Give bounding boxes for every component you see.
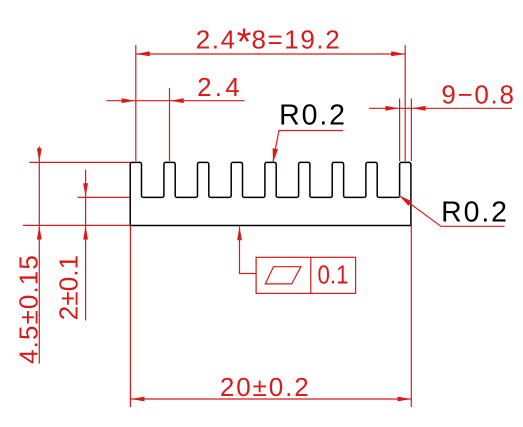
svg-text:4.5±0.15: 4.5±0.15 bbox=[14, 254, 44, 364]
leader line for top R0.2 bbox=[273, 131, 343, 162]
feature control frame divider bbox=[310, 257, 312, 293]
arrow bottom R0.2 leader bbox=[399, 195, 412, 206]
arrow 9-0.8 left (outside, pointing right) bbox=[385, 106, 399, 111]
arrow 19.2 right bbox=[391, 51, 405, 56]
arrow 20 right bbox=[398, 397, 412, 402]
slot-floor level extension line (left) bbox=[78, 196, 131, 198]
svg-text:0.1: 0.1 bbox=[318, 260, 349, 290]
leader line for bottom R0.2 bbox=[399, 195, 505, 226]
dim 9-0.8 dimension line bbox=[369, 107, 512, 109]
arrow 4.5 top (pointing down at fin-top line) bbox=[37, 148, 42, 162]
arrow 2.4 left (outside, pointing right) bbox=[122, 98, 136, 103]
arrow 4.5 bottom (pointing up at base-bottom line) bbox=[37, 226, 42, 240]
arrow 2.4 right (outside, pointing left) bbox=[170, 98, 184, 103]
arrow 9-0.8 right (outside, pointing left) bbox=[412, 106, 426, 111]
dim 2.4*8=19.2 extension line right (fin9 center) bbox=[404, 45, 406, 161]
dim 2.4*8=19.2 dimension line bbox=[136, 53, 405, 55]
dim 2.4 extension line (fin2 center) bbox=[169, 88, 171, 161]
arrow 19.2 left bbox=[136, 51, 150, 56]
svg-text:2.4: 2.4 bbox=[197, 72, 243, 102]
flatness leader line bbox=[240, 227, 257, 274]
svg-text:R0.2: R0.2 bbox=[441, 197, 509, 229]
feature control frame box bbox=[256, 257, 356, 293]
dim 4.5±0.15 dimension line bbox=[38, 147, 40, 364]
svg-text:2±0.1: 2±0.1 bbox=[54, 255, 84, 320]
base-bottom level extension line (left) bbox=[23, 224, 130, 226]
dim 2±0.1 dimension line bbox=[85, 170, 87, 321]
arrow 2 bottom (pointing up at base-bottom line) bbox=[83, 226, 88, 240]
dim 9-0.8 extension line right (fin9 right) bbox=[410, 98, 412, 161]
dim 20±0.2 extension line left bbox=[129, 226, 131, 408]
svg-text:20±0.2: 20±0.2 bbox=[220, 372, 311, 402]
svg-text:9−0.8: 9−0.8 bbox=[441, 80, 515, 110]
heatsink outline bbox=[130, 162, 411, 225]
svg-text:R0.2: R0.2 bbox=[279, 100, 347, 132]
flatness parallelogram symbol bbox=[265, 267, 301, 284]
arrow flatness leader (pointing up) bbox=[237, 227, 242, 241]
arrow 20 left bbox=[131, 397, 145, 402]
arrow top R0.2 leader bbox=[273, 148, 279, 162]
fin-top level extension line (left) bbox=[29, 161, 130, 163]
dim 2.4*8=19.2 extension line left (fin1 center) bbox=[135, 45, 137, 161]
dim 20±0.2 dimension line bbox=[131, 398, 412, 400]
dim 2.4 dimension line bbox=[106, 100, 244, 102]
arrow 2 top (pointing down at slot-floor line) bbox=[83, 183, 88, 197]
dim 20±0.2 extension line right bbox=[410, 226, 412, 408]
dim 9-0.8 extension line left (fin9 left) bbox=[399, 98, 401, 161]
